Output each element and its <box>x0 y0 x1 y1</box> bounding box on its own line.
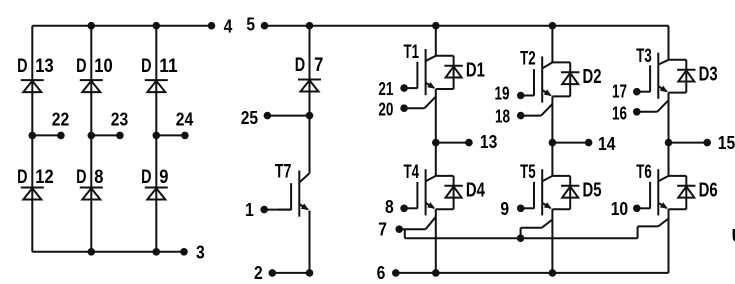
transistor T1 <box>425 49 427 95</box>
svg-text:5: 5 <box>246 14 255 35</box>
svg-text:17: 17 <box>612 82 627 102</box>
svg-text:T7: T7 <box>275 161 292 182</box>
svg-text:6: 6 <box>377 262 386 283</box>
svg-text:D4: D4 <box>466 179 486 201</box>
junction DC+ bus / phase leg V <box>549 22 557 30</box>
wire D4 cathode lead <box>453 176 455 209</box>
svg-text:D3: D3 <box>699 63 718 85</box>
wire phase leg 2 middle <box>551 96 553 175</box>
svg-text:23: 23 <box>111 109 128 130</box>
svg-text:D: D <box>76 167 86 188</box>
diode D13 <box>21 79 44 81</box>
svg-text:11: 11 <box>159 56 178 77</box>
wire D1 anode to emitter <box>436 88 454 90</box>
wire DC- bus (node 6 rail) <box>396 272 669 274</box>
wire phase leg 3 top <box>668 26 670 60</box>
transistor T2 <box>541 56 543 102</box>
svg-text:16: 16 <box>612 104 627 124</box>
svg-text:10: 10 <box>611 198 628 219</box>
wire aux emitter of T2 <box>521 115 541 117</box>
svg-text:20: 20 <box>378 100 393 120</box>
diode D5 <box>561 185 579 187</box>
junction DC+ bus / phase leg U <box>432 22 440 30</box>
node 24 AC input terminal <box>153 132 161 140</box>
svg-text:7: 7 <box>378 219 387 240</box>
svg-text:8: 8 <box>94 167 103 188</box>
svg-text:T1: T1 <box>404 42 420 63</box>
svg-text:D: D <box>17 167 27 188</box>
svg-text:10: 10 <box>94 56 112 77</box>
junction DC+ bus / brake leg <box>306 22 314 30</box>
wire T6 aux emitter branch <box>637 226 639 238</box>
wire rectifier leg 1 <box>31 26 33 252</box>
wire D5 cathode lead <box>569 176 571 209</box>
svg-text:24: 24 <box>176 109 194 130</box>
svg-text:13: 13 <box>480 131 497 152</box>
wire brake leg upper <box>309 26 311 174</box>
wire collector to D4 <box>436 175 454 177</box>
junction rectifier bottom rail / leg 2 <box>88 248 96 256</box>
transistor T4 <box>425 169 427 215</box>
diode D12 <box>21 187 44 189</box>
diode D10 <box>80 79 103 81</box>
wire collector to D2 <box>552 61 570 63</box>
node 14 phase output terminal <box>549 139 557 147</box>
svg-text:D: D <box>141 56 151 77</box>
svg-text:T6: T6 <box>636 162 652 183</box>
wire node 1 gate lead <box>264 209 291 211</box>
wire aux emitter of T3 <box>637 111 657 113</box>
svg-text:9: 9 <box>159 167 168 188</box>
svg-text:9: 9 <box>500 198 509 219</box>
wire D6 anode to emitter <box>669 208 687 210</box>
wire D5 anode to emitter <box>552 208 570 210</box>
diode D4 <box>444 185 462 187</box>
wire rectifier leg 2 <box>90 26 92 252</box>
transistor T3 <box>657 53 659 99</box>
svg-text:D: D <box>76 56 86 77</box>
wire phase leg 3 middle <box>668 93 670 176</box>
node 13 phase output terminal <box>432 139 440 147</box>
junction rectifier top rail / leg 3 <box>153 22 161 30</box>
svg-text:21: 21 <box>378 79 393 99</box>
svg-text:7: 7 <box>314 55 323 76</box>
wire D6 cathode lead <box>685 176 687 209</box>
wire collector to D6 <box>669 175 687 177</box>
svg-text:T5: T5 <box>520 162 536 183</box>
wire phase leg 2 bottom <box>551 209 553 273</box>
wire phase leg 2 top <box>551 26 553 63</box>
node 23 AC input terminal <box>88 132 96 140</box>
svg-text:D: D <box>141 167 151 188</box>
node 4 terminal <box>208 22 216 30</box>
wire D4 anode to emitter <box>436 208 454 210</box>
svg-text:U: U <box>732 226 735 246</box>
junction rectifier bottom rail / leg 3 <box>153 248 161 256</box>
wire node 2 lead <box>272 272 309 274</box>
wire D3 anode to emitter <box>669 92 687 94</box>
svg-text:T3: T3 <box>636 46 652 67</box>
svg-text:D5: D5 <box>583 179 602 201</box>
wire collector to D1 <box>436 55 454 57</box>
junction node 25 / brake leg <box>306 112 314 120</box>
wire rectifier bottom rail (node 3 rail) <box>32 251 184 253</box>
wire D1 cathode lead <box>453 56 455 89</box>
wire phase leg 1 middle <box>435 89 437 176</box>
junction DC- bus / phase leg V <box>549 269 557 277</box>
diode D9 <box>145 187 168 189</box>
transistor T5 <box>541 169 543 215</box>
svg-text:12: 12 <box>35 167 53 188</box>
junction rectifier top rail / leg 2 <box>88 22 96 30</box>
transistor T7 <box>298 171 300 217</box>
wire node 25 lead <box>267 115 309 117</box>
wire rectifier leg 3 <box>155 26 157 252</box>
wire T7 emitter lead <box>309 211 311 273</box>
node 3 terminal <box>180 248 188 256</box>
wire phase leg 1 bottom <box>435 209 437 273</box>
diode D1 <box>444 65 462 67</box>
wire aux emitter bus <box>405 237 638 239</box>
junction aux bus / T5 branch <box>517 234 525 242</box>
wire DC+ bus (node 5 rail) <box>265 25 669 27</box>
svg-text:4: 4 <box>224 16 233 37</box>
wire collector to D5 <box>552 175 570 177</box>
svg-text:D2: D2 <box>583 66 602 88</box>
diode D6 <box>677 185 695 187</box>
svg-text:22: 22 <box>52 109 69 130</box>
svg-text:3: 3 <box>196 242 205 263</box>
wire D3 cathode lead <box>685 60 687 93</box>
diode D11 <box>145 79 168 81</box>
svg-text:T2: T2 <box>520 48 536 69</box>
wire T5 aux emitter branch <box>520 228 522 239</box>
svg-text:14: 14 <box>598 133 616 154</box>
svg-text:18: 18 <box>495 106 510 126</box>
diode D3 <box>677 69 695 71</box>
wire D2 cathode lead <box>569 62 571 96</box>
svg-text:1: 1 <box>245 199 254 220</box>
junction node 2 / T7 emitter <box>306 269 314 277</box>
wire D2 anode to emitter <box>552 95 570 97</box>
wire collector to D3 <box>669 59 687 61</box>
svg-text:8: 8 <box>385 196 394 217</box>
wire node 7 drop to aux bus <box>404 229 406 238</box>
svg-text:D1: D1 <box>466 59 485 81</box>
wire node 7 to T4 aux emitter <box>399 228 425 230</box>
svg-text:19: 19 <box>495 84 510 104</box>
wire phase leg 3 bottom <box>668 209 670 273</box>
diode D8 <box>80 187 103 189</box>
svg-text:13: 13 <box>35 56 53 77</box>
svg-text:D: D <box>295 55 305 76</box>
svg-text:D6: D6 <box>699 179 718 201</box>
wire aux emitter of T1 <box>404 107 424 109</box>
svg-text:D: D <box>17 56 27 77</box>
svg-text:2: 2 <box>254 262 263 283</box>
diode D2 <box>561 71 579 73</box>
node 22 AC input terminal <box>29 132 37 140</box>
wire phase leg 1 top <box>435 26 437 56</box>
junction DC- bus / phase leg U <box>432 269 440 277</box>
wire DC+ rail of rectifier (node 4 rail) <box>32 25 211 27</box>
transistor T6 <box>657 169 659 215</box>
diode D7 <box>298 79 321 81</box>
svg-text:15: 15 <box>718 132 735 153</box>
node 15 phase output terminal <box>665 139 673 147</box>
svg-text:25: 25 <box>241 107 258 128</box>
svg-text:T4: T4 <box>404 162 420 183</box>
